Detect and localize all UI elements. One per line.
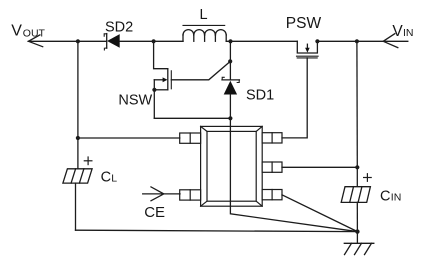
- node NSW source junction: [152, 88, 156, 92]
- svg-text:IN: IN: [391, 192, 402, 204]
- capacitor CIN (polarized): [341, 187, 370, 203]
- node pin1 junction: [76, 136, 80, 140]
- svg-text:NSW: NSW: [118, 93, 152, 109]
- wire CL down to ground rail: [75, 183, 77, 230]
- ground: [344, 232, 374, 255]
- node NSW drain junction: [152, 39, 156, 43]
- terminal arrow VOUT: [28, 35, 42, 47]
- node Lx junction: [228, 116, 232, 120]
- node SW junction (L right / SD1 top): [228, 39, 232, 43]
- inductor L: [183, 25, 226, 41]
- node ground junction: [355, 229, 359, 233]
- terminal arrow VIN: [383, 34, 398, 48]
- wire pin5 node down to CIN: [356, 167, 358, 186]
- wire NSW gate to SD1 cathode node: [171, 61, 230, 79]
- plus sign CL: [84, 157, 92, 165]
- svg-text:PSW: PSW: [286, 15, 322, 32]
- svg-text:IN: IN: [403, 27, 414, 39]
- svg-text:SD2: SD2: [105, 19, 133, 35]
- svg-text:C: C: [380, 189, 390, 205]
- wire pin4 to ground: [282, 195, 357, 232]
- svg-text:L: L: [200, 7, 208, 23]
- node VOUT junction: [76, 39, 80, 43]
- wire CIN down to ground node: [356, 202, 358, 231]
- node PSW drain junction: [315, 39, 319, 43]
- svg-text:OUT: OUT: [23, 27, 46, 39]
- pin 2 (bottom-left): [180, 190, 201, 200]
- transistor NSW (n-ch MOSFET): [154, 41, 172, 90]
- wire SD1 anode down: [229, 95, 231, 119]
- wire ground rail: [76, 230, 358, 231]
- node SD1 cathode junction: [228, 59, 232, 63]
- wire through IC down to ground: [230, 118, 357, 231]
- pin 6 (top-right): [262, 133, 282, 143]
- wire SW node down to SD1: [229, 41, 231, 80]
- plus sign CIN: [364, 174, 372, 182]
- op-amp U1 IC package: [201, 126, 263, 206]
- diode SD2 (Schottky): [104, 34, 120, 50]
- diode SD1 (Schottky): [222, 77, 239, 94]
- svg-text:C: C: [101, 170, 111, 186]
- svg-text:L: L: [111, 173, 117, 185]
- node CIN junction: [355, 39, 359, 43]
- svg-text:V: V: [11, 23, 22, 40]
- wire L to PSW: [226, 40, 297, 42]
- wire NSW source rail: [154, 117, 230, 119]
- wire pin6 to PSW gate: [282, 58, 307, 138]
- svg-text:V: V: [392, 23, 403, 40]
- pin 1 (top-left): [180, 133, 201, 143]
- svg-text:CE: CE: [144, 204, 165, 221]
- wire pin5 to CIN branch: [282, 166, 357, 168]
- wire VOUT to SD2 cathode: [28, 40, 106, 42]
- capacitor CL (polarized): [63, 169, 92, 183]
- wire CIN node down to pin5 node: [356, 41, 358, 167]
- wire PSW to VIN: [317, 40, 407, 42]
- wire NSW source down: [153, 90, 155, 119]
- transistor PSW (p-ch MOSFET): [297, 41, 319, 58]
- svg-text:SD1: SD1: [246, 87, 274, 103]
- node pin5 junction: [355, 165, 359, 169]
- pin 4 (bottom-right): [262, 190, 282, 200]
- wire SD2 to NSW-drain node: [120, 40, 183, 42]
- pin 5 (middle-right): [262, 162, 282, 172]
- wire VOUT node down to CL: [77, 41, 79, 169]
- terminal arrow CE: [143, 187, 180, 201]
- wire pin1 to VOUT branch: [78, 137, 180, 139]
